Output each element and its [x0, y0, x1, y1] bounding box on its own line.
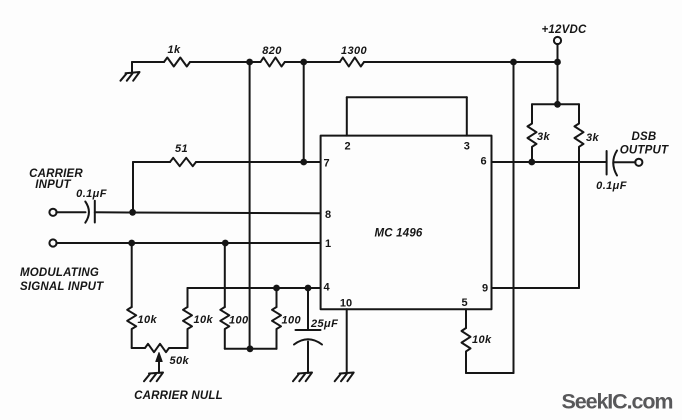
- node junction dot A: [246, 59, 253, 66]
- svg-text:100: 100: [229, 315, 249, 327]
- wire cap to output terminal: [614, 161, 636, 163]
- svg-text:MODULATING: MODULATING: [20, 267, 99, 279]
- wire 10k#1 top lead: [131, 243, 133, 307]
- wire modulating line to pin 1: [56, 242, 320, 244]
- terminal +12VDC: [554, 37, 561, 44]
- svg-text:SIGNAL INPUT: SIGNAL INPUT: [20, 281, 104, 293]
- pin 3 stub: [466, 97, 468, 135]
- node junction dot F (pin6 / 3k): [528, 159, 535, 166]
- svg-text:10k: 10k: [194, 314, 214, 326]
- wire pin4 line: [188, 287, 321, 289]
- wire pin9 line: [492, 287, 580, 289]
- resistor R11 10k pin5: [462, 328, 471, 373]
- ground G1 top-left: [121, 62, 140, 81]
- op-amp U1 MC1496 box: [321, 136, 492, 310]
- node junction dot I: [128, 240, 135, 247]
- terminal DSB output: [635, 159, 642, 166]
- wire top rail right: [364, 61, 558, 63]
- resistor R3 1300: [340, 58, 364, 67]
- node junction dot M (25uF top): [305, 285, 312, 292]
- svg-text:10k: 10k: [472, 334, 492, 346]
- svg-text:100: 100: [282, 315, 302, 327]
- pin 2 stub: [346, 97, 348, 135]
- wire carrier line to pin 8: [95, 212, 321, 213]
- svg-text:50k: 50k: [170, 355, 190, 367]
- svg-text:0.1μF: 0.1μF: [76, 188, 107, 200]
- resistor R4 3k left: [528, 104, 537, 162]
- wire pin5 stub: [465, 309, 467, 328]
- resistor R6 51: [170, 158, 196, 166]
- resistor R7 10k: [127, 307, 136, 348]
- resistor R10 100: [272, 307, 281, 349]
- svg-text:6: 6: [480, 156, 486, 168]
- svg-text:2: 2: [344, 141, 350, 153]
- terminal modulating input: [49, 239, 56, 246]
- wire pin6 line: [492, 161, 607, 163]
- wire 100#2 top lead: [276, 288, 278, 307]
- terminal carrier input: [49, 209, 56, 216]
- node junction dot G (pin7): [300, 159, 307, 166]
- node junction dot C: [510, 59, 517, 66]
- wire: [285, 61, 340, 63]
- wire 51 line: [133, 161, 170, 163]
- wire vertical +12VDC feed to 3k pair: [557, 62, 559, 104]
- wire vertical from node A down to carrier-null rail: [249, 62, 251, 349]
- svg-text:+12VDC: +12VDC: [542, 24, 587, 36]
- svg-text:OUTPUT: OUTPUT: [620, 145, 669, 157]
- svg-text:3k: 3k: [537, 131, 551, 143]
- node junction dot H (carrier): [129, 209, 136, 216]
- ground G2 carrier null: [144, 373, 163, 382]
- svg-text:8: 8: [325, 209, 331, 221]
- svg-text:SeekIC.com: SeekIC.com: [562, 390, 673, 414]
- wire pin10 stub: [346, 309, 348, 373]
- svg-text:25μF: 25μF: [310, 318, 338, 330]
- wire pin5 bottom to vertical C: [466, 372, 514, 374]
- svg-text:4: 4: [323, 282, 330, 294]
- ground G3 25uF: [293, 373, 312, 382]
- svg-text:1300: 1300: [341, 45, 368, 57]
- resistor R1 1k: [164, 58, 190, 67]
- node junction dot E (3k top): [554, 101, 561, 108]
- svg-text:7: 7: [323, 158, 329, 170]
- capacitor C2 25uF: [294, 288, 322, 373]
- resistor R8 10k: [183, 307, 192, 348]
- wire pin7: [304, 161, 321, 163]
- wire 10k#2 top lead: [187, 288, 189, 307]
- svg-text:5: 5: [461, 297, 467, 309]
- wire 51 to pin7 node: [196, 161, 304, 163]
- wire vertical 51-line down to carrier dot: [132, 162, 134, 212]
- svg-text:10k: 10k: [138, 314, 158, 326]
- ground G4 pin10: [335, 373, 354, 382]
- svg-text:10: 10: [340, 298, 352, 310]
- capacitor C3 0.1uF output: [607, 151, 617, 176]
- capacitor C1 0.1uF input: [85, 201, 95, 223]
- wire 100#1 top lead: [224, 243, 226, 307]
- svg-text:1: 1: [325, 238, 331, 250]
- svg-text:0.1μF: 0.1μF: [596, 180, 627, 192]
- svg-text:820: 820: [262, 45, 282, 57]
- svg-text:51: 51: [175, 143, 188, 155]
- svg-text:MC 1496: MC 1496: [374, 228, 422, 240]
- resistor R5 3k right: [575, 104, 584, 288]
- wire vertical from node C down to pin5 resistor rail: [513, 62, 515, 373]
- node junction dot J: [222, 240, 229, 247]
- svg-text:3: 3: [464, 141, 470, 153]
- svg-text:INPUT: INPUT: [35, 179, 71, 191]
- svg-text:DSB: DSB: [632, 131, 657, 143]
- svg-text:CARRIER NULL: CARRIER NULL: [134, 390, 223, 402]
- svg-text:3k: 3k: [586, 132, 600, 144]
- wire 3k top bar: [532, 103, 579, 105]
- potentiometer 50k: [132, 344, 188, 373]
- svg-text:9: 9: [482, 283, 488, 295]
- wire 100s bottom bar: [225, 348, 277, 350]
- resistor R2 820: [261, 58, 285, 67]
- wire loop pin2 to pin3: [347, 96, 467, 98]
- svg-text:1k: 1k: [167, 44, 181, 56]
- node junction dot K: [247, 345, 254, 352]
- node junction dot D: [554, 59, 561, 66]
- wire top rail left: [132, 61, 164, 63]
- resistor R9 100: [220, 307, 229, 349]
- node junction dot L (100#2 top): [273, 285, 280, 292]
- wire vertical from node B down to pin7 node: [303, 62, 305, 162]
- wire: [190, 61, 261, 63]
- wire carrier to cap: [56, 211, 85, 213]
- node junction dot B: [300, 59, 307, 66]
